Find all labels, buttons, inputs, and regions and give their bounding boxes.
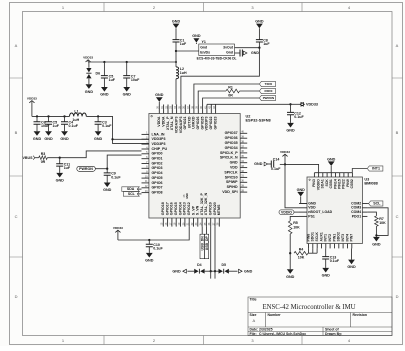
ground above U2 pin 30 [155, 93, 164, 104]
svg-text:SPICS0: SPICS0 [225, 175, 238, 179]
ground below C5 [44, 124, 53, 141]
svg-text:2: 2 [153, 338, 155, 343]
wire COM4 to R7 [367, 212, 376, 216]
svg-text:GND: GND [172, 269, 181, 273]
svg-text:GND: GND [255, 20, 264, 24]
ground below R7 [372, 237, 381, 247]
svg-text:GPIO0: GPIO0 [152, 152, 163, 156]
svg-text:VDD3P3: VDD3P3 [152, 142, 166, 146]
capacitor C8 [256, 39, 270, 47]
oscillator part number [197, 57, 237, 61]
capacitor C1 [173, 39, 187, 47]
svg-text:GPIO23: GPIO23 [213, 116, 217, 129]
svg-text:Title: Title [250, 298, 257, 302]
svg-text:GND: GND [297, 188, 306, 192]
net flag RXD0 [259, 88, 275, 93]
power flag VDD33 at C12 [291, 102, 319, 106]
svg-text:10K: 10K [293, 225, 300, 229]
svg-text:ECS-400-33-TBD-CK06 DL: ECS-400-33-TBD-CK06 DL [197, 57, 237, 61]
capacitor C7 [123, 62, 140, 82]
ground below C6 [33, 124, 42, 141]
wire oscillator output to U2 pin 6 [181, 48, 260, 105]
ground below C10 [145, 247, 154, 263]
svg-text:USB_DP: USB_DP [205, 236, 209, 251]
svg-text:Y1: Y1 [202, 40, 206, 44]
svg-text:C14: C14 [273, 157, 280, 161]
wire PS1 to R5 [290, 216, 299, 221]
svg-text:PS1: PS1 [308, 214, 315, 218]
resistor R7 [375, 216, 387, 226]
svg-text:TXD0: TXD0 [265, 82, 273, 86]
svg-text:VDD33: VDD33 [280, 150, 290, 154]
junction TVS left [210, 270, 212, 272]
svg-text:GND: GND [44, 137, 53, 141]
svg-text:R3: R3 [41, 152, 46, 156]
svg-text:SDO1: SDO1 [311, 232, 315, 242]
svg-text:VDD3P3: VDD3P3 [152, 137, 166, 141]
svg-text:C: C [396, 214, 399, 219]
svg-text:RXD0: RXD0 [264, 89, 272, 93]
net label PWRON (left) [77, 166, 96, 171]
oscillator Y1 pin names [200, 45, 234, 54]
svg-text:INT3: INT3 [341, 234, 345, 242]
svg-text:VDD3P3: VDD3P3 [205, 117, 209, 131]
diode D6 [86, 62, 100, 78]
svg-text:GND: GND [372, 243, 381, 247]
junction C8 osc [258, 47, 260, 49]
svg-text:0.1uF: 0.1uF [69, 124, 79, 128]
wire to VDD3P3 pin [113, 138, 149, 140]
wire U3 top rail [314, 172, 352, 174]
svg-text:10K: 10K [298, 256, 305, 260]
svg-text:0R: 0R [41, 160, 46, 164]
svg-text:1uH: 1uH [180, 71, 187, 75]
svg-text:GND: GND [286, 129, 295, 133]
net label VDDIO [279, 210, 299, 215]
svg-text:4: 4 [348, 338, 351, 343]
wire R5 down [289, 234, 291, 253]
svg-text:GND: GND [56, 179, 65, 183]
svg-text:4: 4 [348, 5, 351, 10]
svg-text:GND: GND [103, 188, 112, 192]
svg-text:U0RXD: U0RXD [192, 116, 196, 129]
capacitor C4 [61, 116, 79, 128]
svg-text:GPIO34: GPIO34 [225, 146, 238, 150]
svg-text:0.1uF: 0.1uF [102, 124, 112, 128]
power flag VDD33 (top rail) [83, 56, 93, 62]
wire VDD33 node to U3 top rail [285, 164, 319, 172]
svg-text:Date:: Date: [250, 328, 259, 332]
svg-text:MTMS: MTMS [217, 204, 221, 215]
svg-text:GND: GND [322, 274, 331, 278]
svg-text:0R: 0R [228, 93, 233, 97]
svg-text:GPIO3: GPIO3 [152, 166, 163, 170]
wire C1 to rail [175, 42, 177, 62]
svg-text:GND: GND [172, 20, 181, 24]
svg-text:GPIO8: GPIO8 [152, 191, 163, 195]
capacitor C10 [146, 240, 164, 251]
svg-text:GND: GND [327, 157, 336, 161]
svg-text:L1: L1 [74, 110, 78, 114]
ground net flag left of D4 [172, 269, 194, 273]
ground net flag at C2 [243, 51, 259, 55]
ground above C8 [255, 20, 264, 40]
svg-text:LNA_IN: LNA_IN [152, 132, 165, 136]
svg-text:USB_DN: USB_DN [200, 236, 204, 251]
svg-text:A: A [15, 43, 18, 48]
svg-text:D4: D4 [197, 263, 202, 267]
svg-text:ESP32-S3FN8: ESP32-S3FN8 [246, 119, 272, 123]
capacitor C11 [56, 158, 71, 170]
svg-text:SPICLK: SPICLK [224, 170, 238, 174]
svg-text:GPIO35: GPIO35 [225, 141, 238, 145]
svg-text:GPIO5: GPIO5 [152, 176, 163, 180]
junction C10 [148, 239, 150, 241]
ground below C12 [286, 115, 295, 133]
svg-text:GND: GND [192, 34, 201, 38]
wire oscillator EnDs to L2 node [176, 50, 199, 52]
svg-text:A: A [253, 318, 256, 323]
svg-text:B: B [15, 130, 18, 135]
ground above U3 GND pin [297, 188, 307, 204]
wire USB D- down [210, 227, 212, 279]
IMU U3 BMI088 [299, 173, 379, 249]
net flag SCL [123, 192, 141, 197]
svg-text:GND: GND [185, 193, 189, 199]
wire TXD0 [194, 84, 260, 105]
svg-text:1uF: 1uF [109, 78, 116, 82]
inductor L1 [70, 110, 87, 122]
svg-text:0.1uF: 0.1uF [294, 115, 304, 119]
wire C14 to VDD33 node [280, 163, 285, 165]
capacitor C5 [45, 116, 60, 128]
svg-text:D: D [15, 294, 18, 299]
svg-text:GND: GND [286, 275, 295, 279]
stubs bottom rail to pins [309, 248, 318, 253]
svg-text:3: 3 [251, 338, 254, 343]
ground below C3 [94, 124, 103, 141]
wire U3 top to INT flag [352, 169, 367, 173]
svg-text:GND: GND [123, 93, 132, 97]
wire VDD rail to C12 [207, 103, 291, 105]
junction TVS right [214, 270, 216, 272]
svg-text:3: 3 [251, 5, 254, 10]
ground below C13 [322, 259, 331, 278]
net flag INT1 (top) [367, 166, 383, 171]
title block [248, 297, 392, 336]
svg-text:CHIP_PU: CHIP_PU [152, 147, 168, 151]
ground below U3 pin [347, 248, 356, 269]
ground below D6 [85, 79, 94, 94]
svg-text:GND: GND [251, 51, 259, 55]
power flag VDD33 (USB rail) [113, 226, 123, 240]
svg-text:INT1: INT1 [372, 166, 380, 170]
wire PWRON top [203, 98, 260, 105]
svg-text:D: D [396, 294, 399, 299]
svg-text:SDA: SDA [127, 187, 135, 191]
svg-text:C: C [15, 214, 18, 219]
net label USB_DP (vertical) [204, 227, 208, 259]
svg-text:SCL: SCL [373, 201, 381, 205]
oscillator Y1 box [199, 40, 235, 56]
svg-text:VDD: VDD [230, 166, 238, 170]
ground below C9 [103, 175, 112, 192]
svg-text:SPICLK_P: SPICLK_P [220, 151, 238, 155]
net label USB_DN (vertical) [200, 227, 204, 259]
microcontroller U2 ESP32-S3FN8 [142, 105, 272, 227]
svg-text:3vOut: 3vOut [223, 45, 234, 49]
svg-text:VDDA: VDDA [161, 116, 165, 127]
ground net flag at C14 [254, 162, 268, 166]
svg-text:2: 2 [153, 5, 155, 10]
svg-text:GPIO4: GPIO4 [152, 171, 163, 175]
diode D5 [215, 263, 229, 273]
svg-text:VBUS: VBUS [23, 156, 34, 160]
svg-text:B: B [396, 130, 399, 135]
resistor R5 [288, 221, 300, 234]
svg-text:PWRON: PWRON [263, 96, 274, 100]
svg-text:VDD_SPI: VDD_SPI [222, 190, 237, 194]
capacitor C3 [95, 116, 113, 128]
ground net flag right of D5 [229, 269, 253, 273]
svg-text:R4: R4 [299, 247, 304, 251]
svg-text:BMI088: BMI088 [364, 182, 378, 186]
ground below C4 [60, 124, 69, 141]
svg-text:0.1uF: 0.1uF [330, 259, 340, 263]
diode D4 [194, 263, 211, 273]
svg-text:10uF: 10uF [131, 78, 140, 82]
svg-text:1uF: 1uF [64, 166, 71, 170]
net flag VBUS [23, 156, 35, 160]
svg-text:GND: GND [230, 161, 238, 165]
junction L2 oscillator tap [175, 50, 177, 52]
svg-text:GPIO7: GPIO7 [152, 186, 163, 190]
svg-text:GND: GND [85, 90, 94, 94]
wire between TVS [211, 270, 215, 272]
ground below R5 rail [286, 253, 295, 279]
junction C12 [289, 103, 291, 105]
svg-text:D5: D5 [221, 263, 226, 267]
net flag PWRON (top) [259, 95, 275, 100]
svg-text:GND: GND [244, 269, 253, 273]
svg-text:GND: GND [254, 162, 263, 166]
svg-text:1uH: 1uH [72, 118, 79, 122]
wire RXD0 right [240, 90, 260, 92]
junction C9 [106, 168, 108, 170]
wire VDD33 down to U3 VDD [285, 164, 299, 207]
svg-text:GPIO36: GPIO36 [225, 136, 238, 140]
svg-text:PDO1: PDO1 [352, 214, 362, 218]
resistor R3 [39, 152, 48, 164]
svg-text:GPIO37: GPIO37 [225, 131, 238, 135]
svg-text:GND: GND [145, 259, 154, 263]
capacitor C2 at oscillator Gnd pin [235, 50, 243, 57]
svg-text:VDD33: VDD33 [306, 102, 318, 106]
svg-text:C:\Users\..\MCU Sch.SchDoc: C:\Users\..\MCU Sch.SchDoc [259, 332, 306, 336]
junction dots top rail [103, 61, 177, 63]
net flag SCL (IMU right) [367, 201, 383, 206]
svg-text:SPIHD: SPIHD [227, 185, 238, 189]
junction dots mid rail [36, 115, 99, 117]
wire PWRON to pin [95, 155, 141, 169]
svg-text:PWRON: PWRON [79, 167, 93, 171]
capacitor C9 [104, 169, 122, 180]
svg-text:A: A [396, 43, 399, 48]
resistor R4 [294, 247, 308, 259]
svg-text:Number: Number [268, 313, 282, 317]
svg-text:GND: GND [60, 137, 69, 141]
svg-text:SPICLK_N: SPICLK_N [220, 156, 238, 160]
svg-text:SPIWP: SPIWP [226, 180, 238, 184]
svg-text:1: 1 [62, 5, 65, 10]
svg-text:Size: Size [250, 313, 257, 317]
svg-text:CSB2: CSB2 [350, 179, 354, 188]
junction C11 [59, 157, 61, 159]
power flag VDD33 (IMU) [280, 150, 290, 164]
capacitor C6 [34, 116, 51, 128]
svg-text:GND: GND [100, 93, 109, 97]
net flag SDA [122, 187, 142, 192]
wire oscillator 3vOut to C8 node [235, 47, 260, 49]
capacitor C13 [322, 248, 340, 263]
svg-text:10K: 10K [379, 221, 386, 225]
svg-text:0.1uF: 0.1uF [111, 175, 121, 179]
junction VDD pins [111, 138, 113, 140]
ground below C5 [100, 78, 109, 97]
inductor L2 [176, 62, 187, 79]
power flag VDD33 (mid rail) [27, 96, 37, 116]
junction VDD33 C14 [284, 163, 286, 165]
svg-text:1uF: 1uF [263, 42, 270, 46]
svg-text:Revision: Revision [353, 313, 367, 317]
svg-text:0.1uF: 0.1uF [153, 247, 163, 251]
svg-text:En/Ds: En/Ds [200, 51, 210, 55]
ground below C11 [56, 166, 65, 182]
junction R4 [289, 252, 291, 254]
svg-text:VDDA3P3: VDDA3P3 [174, 116, 178, 133]
svg-text:ENSC-42 Microcontroller & IMU: ENSC-42 Microcontroller & IMU [262, 304, 355, 311]
svg-text:VDD33: VDD33 [27, 96, 37, 100]
svg-text:1: 1 [62, 338, 65, 343]
ground above oscillator Y1 [192, 34, 201, 44]
svg-text:2/3/2025: 2/3/2025 [259, 328, 273, 332]
svg-text:Gnd: Gnd [200, 45, 207, 49]
wire VBUS to R3 [35, 157, 39, 159]
wire top rail [88, 61, 176, 63]
svg-text:VDD33: VDD33 [113, 226, 123, 230]
wire COM3 loop [367, 208, 388, 236]
svg-text:GPIO1: GPIO1 [152, 157, 163, 161]
junction R7 loop [375, 234, 377, 236]
svg-text:1uF: 1uF [53, 124, 60, 128]
wire R4 to bottom rail [308, 252, 317, 254]
svg-text:Sheet of: Sheet of [325, 328, 340, 332]
wire mid rail [32, 116, 149, 143]
svg-text:1uF: 1uF [180, 42, 187, 46]
wire EPAD to C10 [118, 227, 189, 240]
svg-text:PIN7: PIN7 [350, 234, 354, 242]
svg-text:INT2: INT2 [328, 234, 332, 242]
wire L2 to U2 pin [175, 79, 177, 105]
svg-text:GND: GND [347, 265, 356, 269]
resistor R1 [226, 85, 240, 97]
ground above C1 [172, 20, 181, 40]
svg-text:File:: File: [250, 332, 257, 336]
svg-text:SCL: SCL [128, 192, 136, 196]
svg-text:0.1uF: 0.1uF [271, 167, 281, 171]
svg-text:D6: D6 [96, 71, 101, 75]
capacitor C5 [101, 62, 116, 82]
svg-text:GPIO2: GPIO2 [152, 161, 163, 165]
ground above U3 [327, 157, 336, 172]
svg-text:GND: GND [33, 137, 42, 141]
capacitor C14 [268, 157, 281, 171]
wire R3 to U2 CHIP_PU [47, 151, 141, 158]
svg-text:GND: GND [94, 137, 103, 141]
wire RXD0 left [198, 91, 226, 105]
svg-text:GPIO6: GPIO6 [152, 181, 163, 185]
net flag TXD0 [259, 81, 275, 86]
svg-text:Gnd: Gnd [226, 51, 233, 55]
svg-text:GPIO14: GPIO14 [178, 202, 182, 215]
wire C8 down [258, 42, 260, 48]
svg-text:VDD33: VDD33 [83, 56, 93, 60]
wire USB D+ down [214, 227, 216, 279]
ground below C7 [123, 78, 132, 97]
svg-text:GND: GND [155, 93, 164, 97]
wire R7 down [375, 226, 377, 237]
svg-text:Drawn By:: Drawn By: [325, 332, 342, 336]
svg-text:R1: R1 [228, 85, 233, 89]
capacitor C12 [287, 104, 304, 119]
svg-text:VDDIO: VDDIO [281, 211, 292, 215]
